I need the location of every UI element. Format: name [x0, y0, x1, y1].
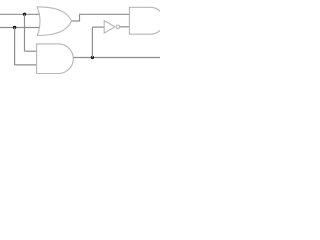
node junction dot on U2 output net: [91, 56, 94, 59]
or-gate U1: [37, 7, 72, 36]
not-gate U3 triangle: [104, 21, 115, 33]
wire net A top horizontal input: [0, 13, 40, 15]
wire net B vertical drop: [14, 28, 16, 65]
wire U1 output step: [72, 14, 130, 21]
node junction dot on net B: [13, 26, 16, 29]
wire to NOT gate input: [92, 26, 104, 28]
wire U2 output to right edge: [73, 57, 160, 59]
node junction dot on net A: [23, 13, 26, 16]
wire U3 output to AND3 input 2: [120, 26, 130, 28]
wire net B second horizontal input: [0, 27, 40, 29]
wire net A vertical drop: [24, 14, 26, 51]
wire U2 output vertical rise: [91, 27, 93, 57]
and-gate U2 bottom: [37, 44, 74, 74]
not-gate U3 bubble: [116, 25, 120, 29]
wire net A to AND1 input 1: [25, 50, 38, 52]
wire net B to AND1 input 2: [15, 64, 37, 66]
and-gate U4 right clipped: [129, 7, 164, 34]
